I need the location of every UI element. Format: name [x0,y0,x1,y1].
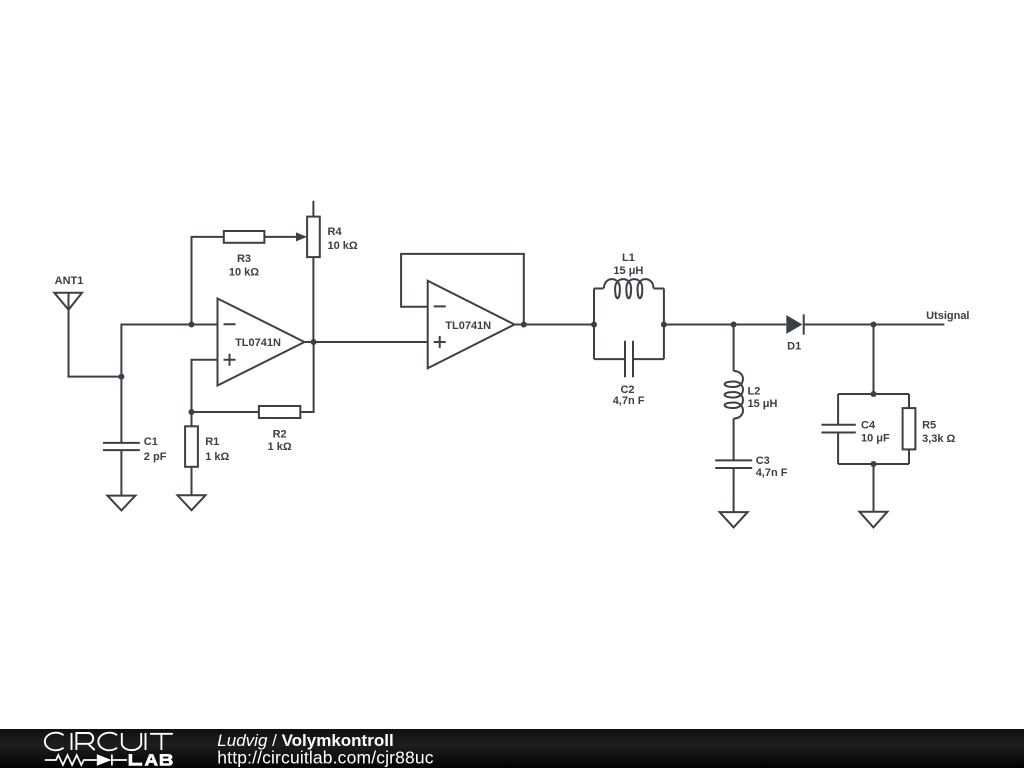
resistor R3 10 kOhm [224,231,297,278]
wire L1 to D1 [664,324,786,326]
svg-text:1 kΩ: 1 kΩ [205,451,229,463]
wire output node down to C4/R5 [873,325,875,395]
logo resistor-diode squiggle [45,754,127,765]
svg-text:R2: R2 [273,429,287,441]
wiper arrow into R4 [296,232,307,241]
svg-text:C2: C2 [620,384,634,396]
svg-text:R3: R3 [237,253,251,265]
svg-text:4,7n F: 4,7n F [756,467,788,479]
svg-text:15 μH: 15 μH [613,265,643,277]
node L1 right [661,322,667,328]
wire U2 feedback loop [401,254,524,325]
svg-text:D1: D1 [787,340,801,352]
svg-text:L2: L2 [748,386,761,398]
node L2 branch [731,322,737,328]
potentiometer R4 10 kOhm [307,201,358,342]
ground (C1) [107,496,135,511]
svg-text:4,7n F: 4,7n F [613,395,645,407]
C4/R5 frame wires [838,394,909,464]
svg-text:TL0741N: TL0741N [445,320,491,332]
wire to Utsignal [874,324,945,326]
svg-text:10 kΩ: 10 kΩ [229,266,259,278]
node R1/R2 junction [189,409,195,415]
capacitor C2 4,7n F [613,341,645,407]
node L1 left [591,322,597,328]
node C4/R5 bottom [871,461,877,467]
svg-text:2 pF: 2 pF [144,451,167,463]
svg-text:C3: C3 [756,455,770,467]
wire C4/R5 to ground [873,464,875,512]
svg-text:R4: R4 [328,226,343,238]
inductor L2 15 uH [725,325,778,461]
capacitor C3 4,7n F [715,455,788,512]
node U2 output junction [521,322,527,328]
resistor R5 3,3k Ohm [903,408,956,449]
logo CIRCUIT lettering [45,733,173,751]
wire antenna lead [69,310,122,377]
svg-text:10 kΩ: 10 kΩ [328,240,358,252]
svg-text:15 μH: 15 μH [748,398,778,410]
inductor L1 15 uH [594,252,664,298]
svg-text:L1: L1 [622,252,635,264]
resistor R2 1 kOhm [192,342,314,453]
op-amp U1 TL0741N [218,299,305,386]
wire minus column to R3 [192,237,224,325]
svg-text:TL0741N: TL0741N [235,337,281,349]
ground (R1) [178,495,206,510]
svg-text:10 μF: 10 μF [861,433,890,445]
ground (C4/R5) [859,512,887,528]
ground (C3) [720,512,748,527]
node U1 minus junction [189,322,195,328]
node U1 output junction [311,339,317,345]
svg-text:C1: C1 [144,436,158,448]
svg-text:R1: R1 [205,436,219,448]
svg-text:Utsignal: Utsignal [926,310,969,322]
op-amp U2 TL0741N [428,281,515,369]
diode D1 [786,314,803,352]
svg-text:ANT1: ANT1 [55,275,84,287]
logo LAB lettering [129,754,173,766]
svg-text:R5: R5 [922,419,936,431]
capacitor C4 10 uF [822,419,891,444]
svg-text:1 kΩ: 1 kΩ [268,441,292,453]
wire D1 to output node [804,324,874,326]
antenna ANT1 [54,275,83,310]
node output branch [871,322,877,328]
node antenna/C1 junction [118,374,124,380]
L1/C2 tank frame wires [594,289,664,360]
capacitor C1 [103,436,167,495]
svg-text:C4: C4 [861,419,876,431]
svg-text:http://circuitlab.com/cjr88uc: http://circuitlab.com/cjr88uc [217,747,433,767]
wire input node column [121,325,217,443]
footer bar [0,729,1024,768]
resistor R1 1 kOhm [185,412,229,495]
svg-text:3,3k Ω: 3,3k Ω [922,433,955,445]
node C4/R5 top [871,391,877,397]
wire U1 output to U2 plus [304,341,427,343]
wire U2 output to L1 [515,324,595,326]
wire U1 plus input [192,360,218,412]
